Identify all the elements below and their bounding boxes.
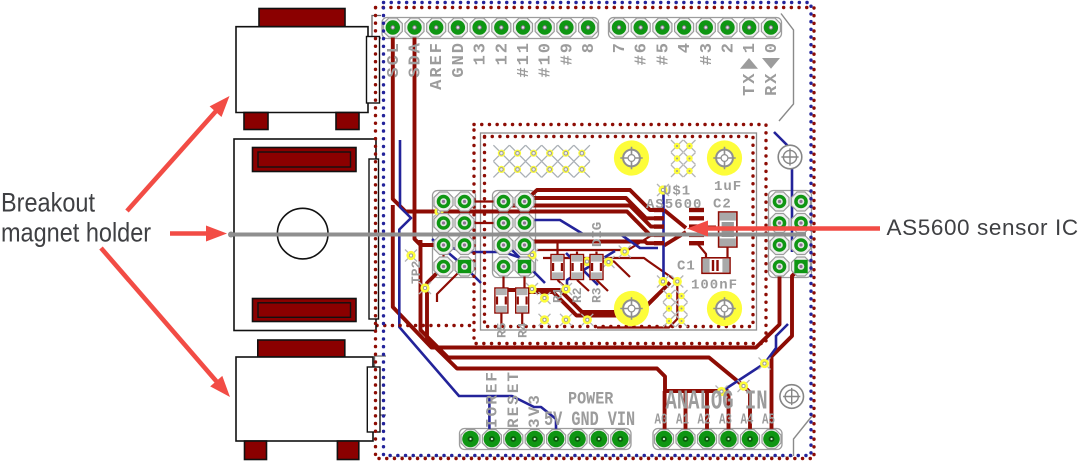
silk outline power header (460, 429, 632, 450)
wire resistor stubs (501, 244, 608, 325)
svg-text:#6: #6 (633, 41, 652, 65)
svg-text:R5: R5 (495, 322, 510, 338)
svg-text:TP2: TP2 (409, 260, 424, 284)
wire IC wedge (664, 210, 686, 246)
silk outline digital header right group (609, 18, 782, 39)
wire bundle to IC row b (531, 198, 654, 218)
annotation gray pointer line (229, 233, 806, 237)
svg-text:R4: R4 (516, 322, 531, 338)
wire blue cluster diag 2 (531, 220, 658, 248)
Breakout magnet holder top: tab (259, 9, 345, 27)
annotation arrow to middle holder (170, 226, 227, 242)
annotation arrow to top holder (127, 96, 230, 211)
mounting hole bottom right (780, 385, 804, 409)
svg-text:C2: C2 (713, 197, 732, 213)
capacitor C1 (702, 258, 730, 274)
xpad column right of IC bottom (663, 290, 688, 327)
svg-text:GND: GND (450, 41, 469, 78)
wire SDA trace (415, 36, 438, 245)
silk outline analog header (653, 429, 782, 450)
svg-text:4: 4 (676, 41, 695, 53)
svg-text:#3: #3 (698, 41, 717, 65)
unused pad grid (493, 145, 590, 177)
board keepout red dotted border (376, 8, 815, 459)
wire to A1 (684, 391, 688, 439)
svg-text:1: 1 (741, 41, 760, 53)
svg-text:TX: TX (741, 72, 760, 96)
wire bundle to IC row c (512, 206, 654, 227)
wire blue resistor weave 1 (507, 245, 545, 283)
board bottom edge (390, 456, 793, 458)
wire blue IC vertical (662, 192, 665, 279)
xpad column right of IC top (671, 140, 696, 177)
Breakout magnet holder middle: body (234, 139, 376, 331)
header JP1 pads (434, 192, 474, 276)
silk outline header JP1 (433, 191, 476, 278)
svg-text:8: 8 (580, 41, 599, 53)
silk outline digital header left group (382, 18, 599, 39)
wire to A0 (663, 391, 667, 439)
power header pads (461, 429, 630, 448)
wire blue resistor weave 2 (566, 253, 598, 285)
wire bus below module 1 (393, 205, 780, 348)
module drill hole BL (614, 291, 649, 326)
svg-text:A0: A0 (655, 411, 668, 428)
AS5600 module silk outline (481, 133, 757, 330)
board outline bottom-left bracket (375, 356, 387, 415)
wire blue 5V route (399, 140, 556, 432)
svg-text:2: 2 (720, 41, 739, 53)
annotation text AS5600 sensor IC (887, 215, 1079, 240)
module drill hole TL (614, 140, 649, 175)
wire blue right vertical (722, 132, 793, 392)
annotation arrow to bottom holder (101, 248, 230, 397)
svg-text:magnet holder: magnet holder (1, 218, 151, 248)
op-amp U1 AS5600 IC pads (654, 208, 704, 246)
resistor R4 (516, 288, 529, 313)
svg-text:A5: A5 (762, 411, 775, 428)
Breakout magnet holder bottom: foot right (337, 441, 358, 460)
Breakout magnet holder middle: magnet circle (277, 208, 328, 259)
resistor R5 (495, 288, 508, 313)
svg-text:13: 13 (472, 41, 491, 65)
power header labels (483, 370, 544, 428)
wire module staircase 2 (528, 292, 658, 316)
svg-text:R2: R2 (570, 287, 585, 303)
svg-text:A4: A4 (741, 411, 754, 428)
silk outline header JP3 (769, 191, 812, 278)
annotation arrow to AS5600 (687, 221, 880, 237)
module drill hole TR (707, 140, 742, 175)
svg-text:AS5600: AS5600 (646, 197, 702, 213)
vias (405, 184, 771, 398)
Breakout magnet holder middle: bottom magnet bar (253, 299, 357, 322)
wire IC to C1 (697, 243, 706, 258)
module keepout inner dotted (485, 137, 754, 327)
wire cluster row links (444, 202, 504, 267)
svg-text:12: 12 (493, 41, 512, 65)
wire to A2 (705, 391, 709, 439)
Breakout magnet holder middle: top magnet bar (253, 148, 357, 172)
Breakout magnet holder top: right pin (367, 37, 380, 104)
wire bus below module 3 analog bus (427, 267, 729, 392)
wire blue mid diagonal (567, 251, 615, 288)
svg-text:#5: #5 (654, 41, 673, 65)
silk outline header JP2 (493, 191, 536, 278)
Breakout magnet holder bottom: right pin (367, 367, 380, 432)
wire right cluster to A5 (772, 267, 802, 439)
svg-text:A3: A3 (719, 411, 732, 428)
svg-text:SCL: SCL (385, 41, 404, 78)
wire blue cluster diag 1 (432, 239, 481, 283)
board dimension blue dotted border (384, 3, 812, 456)
Breakout magnet holder top: body (236, 27, 368, 113)
svg-text:#11: #11 (515, 41, 534, 78)
svg-text:RESET: RESET (505, 370, 523, 428)
wire to A3 (727, 391, 731, 439)
Breakout magnet holder bottom: tab (258, 340, 345, 357)
svg-text:A2: A2 (698, 411, 711, 428)
svg-text:SDA: SDA (407, 41, 426, 78)
Breakout magnet holder top: foot left (244, 113, 268, 130)
svg-text:RX: RX (763, 72, 782, 96)
svg-text:AREF: AREF (428, 41, 447, 90)
mounting hole top right (778, 145, 802, 169)
wire bundle to IC row a (525, 190, 655, 210)
svg-text:IOREF: IOREF (483, 370, 501, 428)
labels A0-A5 (655, 411, 776, 428)
svg-text:AS5600 sensor IC: AS5600 sensor IC (887, 215, 1079, 240)
Breakout magnet holder middle: right pin (369, 159, 379, 319)
module keepout outer dotted (474, 125, 766, 344)
TX triangle (740, 58, 758, 69)
board outline top-left bracket (372, 16, 381, 39)
header JP3 pads (770, 192, 811, 276)
header JP2 pads (494, 192, 534, 276)
wire C2 link (704, 227, 728, 264)
module drill hole BR (707, 291, 742, 326)
Breakout magnet holder bottom: foot left (245, 441, 267, 460)
digital header pads (383, 18, 780, 37)
annotation text Breakout magnet holder (1, 188, 151, 248)
svg-text:R3: R3 (590, 287, 605, 303)
wire bundle to IC row e (537, 235, 652, 250)
RX triangle (762, 58, 780, 69)
board outline top-right notch (779, 14, 794, 122)
analog header pads (654, 429, 781, 448)
wire module staircase 1 (507, 283, 670, 313)
resistor R2 (571, 255, 584, 280)
wire SCL trace (393, 36, 654, 235)
resistor R1 (551, 255, 564, 280)
wire bus below module 2 (421, 240, 751, 439)
wire blue cluster diag 3 (444, 245, 525, 259)
resistor R3 (590, 255, 603, 280)
wire cluster feeder diagonal (437, 267, 525, 303)
svg-text:0: 0 (763, 41, 782, 53)
svg-text:#9: #9 (558, 41, 577, 65)
svg-text:1uF: 1uF (714, 179, 742, 195)
capacitor C2 (719, 212, 737, 247)
svg-text:Breakout: Breakout (1, 188, 95, 218)
svg-text:3V3: 3V3 (526, 393, 544, 428)
wire bundle to IC row d (525, 242, 655, 246)
board outline bottom-right chamfer (794, 416, 813, 456)
svg-text:100nF: 100nF (691, 278, 738, 294)
svg-text:#10: #10 (537, 41, 556, 78)
Breakout magnet holder bottom: body (236, 357, 373, 441)
wire bundle to IC row f (543, 258, 677, 282)
svg-text:POWER: POWER (568, 388, 613, 409)
svg-text:C1: C1 (677, 259, 696, 275)
keepout line left (377, 324, 474, 327)
svg-text:A1: A1 (676, 411, 689, 428)
Breakout magnet holder top: foot right (336, 113, 359, 130)
svg-text:R1: R1 (551, 287, 566, 303)
svg-text:7: 7 (611, 41, 630, 53)
digital header labels (385, 41, 782, 96)
svg-text:5V GND VIN: 5V GND VIN (544, 409, 635, 432)
wire module bottom interior (597, 282, 677, 328)
wire mid link (580, 262, 630, 278)
